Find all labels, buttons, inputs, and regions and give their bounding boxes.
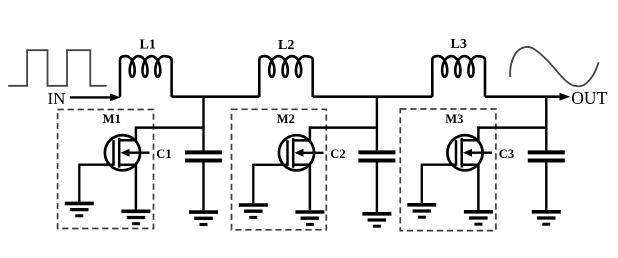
svg-text:M1: M1 — [103, 112, 121, 126]
svg-text:OUT: OUT — [571, 88, 607, 108]
svg-text:L1: L1 — [140, 38, 156, 53]
svg-text:C2: C2 — [330, 147, 345, 161]
svg-text:M2: M2 — [277, 112, 295, 126]
svg-text:IN: IN — [48, 89, 66, 108]
svg-text:C3: C3 — [499, 147, 514, 161]
svg-text:C1: C1 — [156, 147, 171, 161]
svg-text:L2: L2 — [278, 38, 294, 53]
svg-text:M3: M3 — [445, 112, 463, 126]
svg-text:L3: L3 — [451, 37, 467, 52]
